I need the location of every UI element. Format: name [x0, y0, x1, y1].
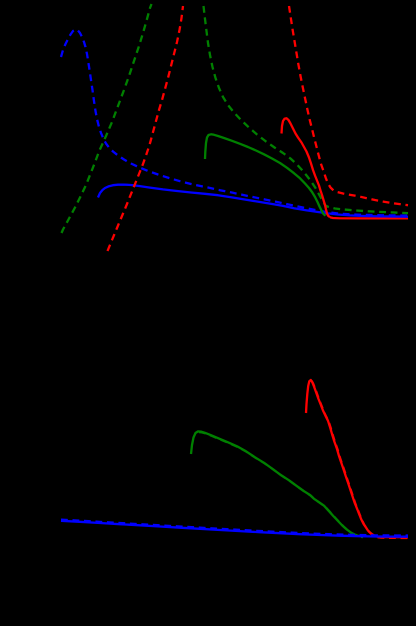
top panel: red solid curve tail along bottom band — [330, 217, 408, 218]
top panel: red dashed rising branch (clipped at top) — [108, 6, 184, 251]
top panel: blue solid curve — [98, 185, 408, 217]
top panel: red solid curve (starts with hook at x=282) — [282, 118, 331, 217]
top panel: red dashed descending branch with tail — [289, 6, 408, 205]
bottom panel: green solid response curve (hook then near-linear fall) — [191, 431, 362, 536]
bottom panel: blue solid near-flat line — [61, 521, 408, 537]
top panel: green dashed descending branch with tail — [204, 6, 409, 213]
top panel: green dashed rising branch (clipped at top) — [62, 4, 152, 233]
bottom panel: blue dashed overlay — [61, 520, 408, 536]
top panel: green solid curve (starts with hook at x=205) — [205, 134, 326, 215]
bottom panel: red solid response curve (hook, peak, steep fall, flat tail) — [306, 380, 408, 537]
bottom panel: green dashed overlay — [199, 432, 363, 537]
top panel: blue dashed curve (resonance peak at left, long tail) — [61, 30, 408, 216]
bottom panel: red dashed overlay on descent — [312, 381, 409, 538]
